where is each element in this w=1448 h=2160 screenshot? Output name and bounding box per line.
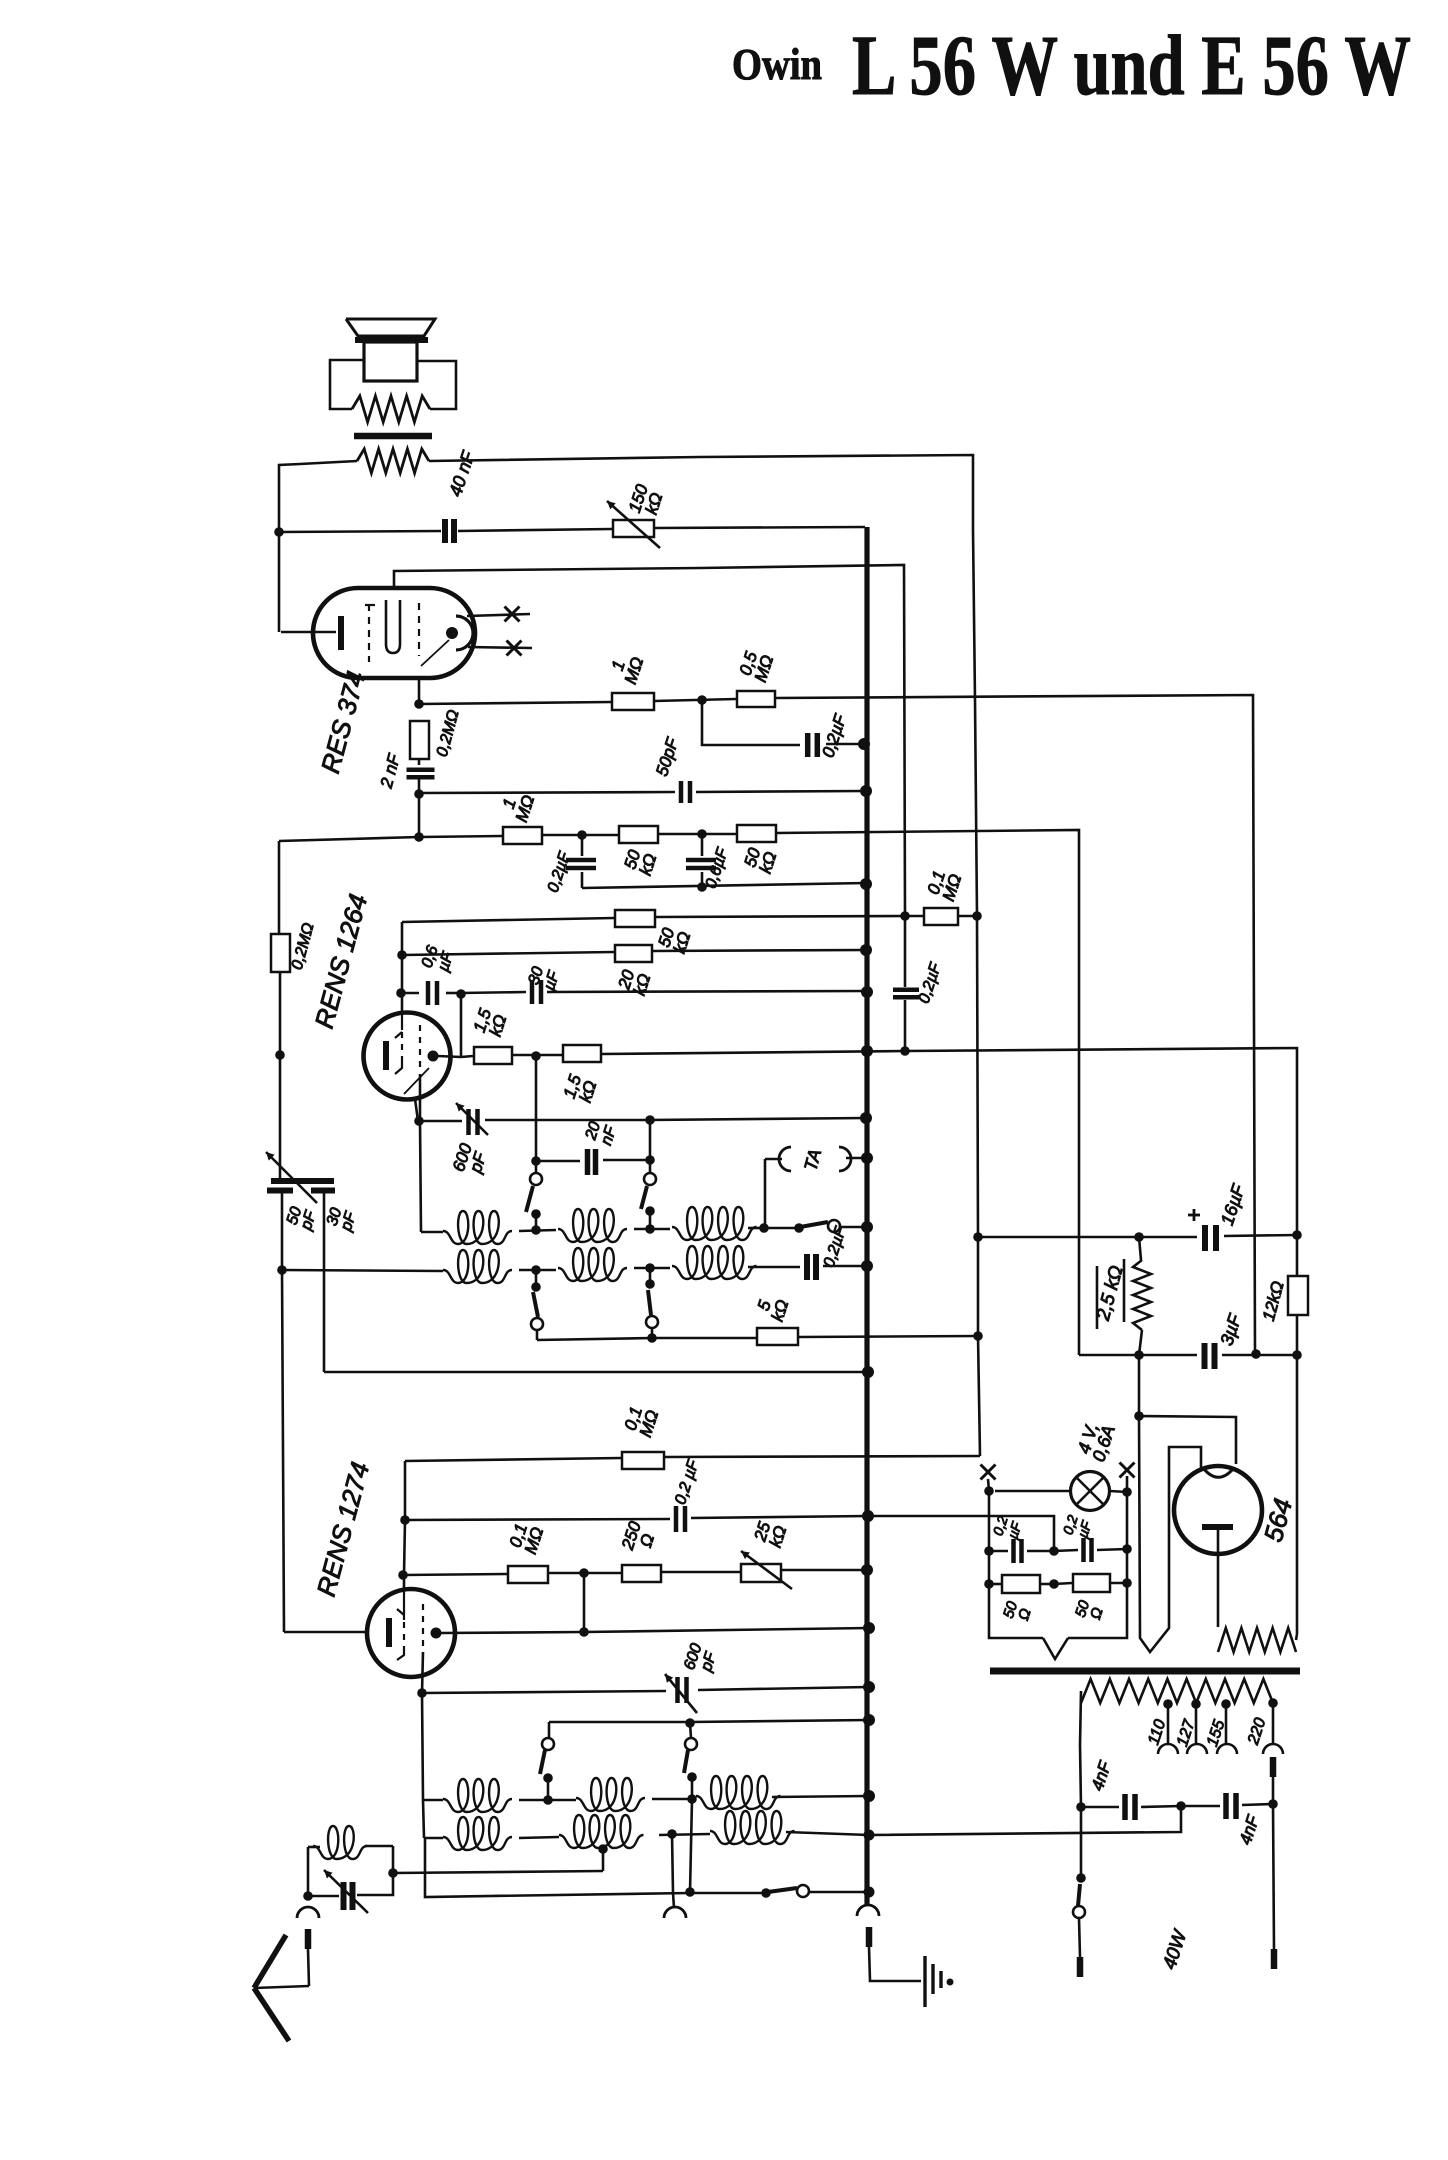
- mains primary winding zigzag: [1081, 1679, 1273, 1703]
- capacitor 0,6 µF (AVC b): [701, 834, 704, 856]
- wire balance box right: [1126, 1492, 1129, 1549]
- resistor 250 Ω: [622, 1565, 661, 1582]
- capacitor 16 µF (+): [1202, 1225, 1208, 1251]
- capacitor 4 nF (b): [1223, 1793, 1229, 1819]
- wire x584 link: [583, 1573, 586, 1632]
- svg-text:4nF: 4nF: [1236, 1812, 1264, 1847]
- wire balance mid feed: [868, 1516, 1054, 1551]
- capacitor 40 nF: [442, 519, 448, 543]
- resistor 0,1 MΩ (screen): [924, 908, 958, 925]
- trimmer capacitor (antenna): [308, 1895, 339, 1898]
- tube RENS 1264 envelope: [364, 1013, 451, 1100]
- wire grid-cap row RES374: [394, 565, 905, 916]
- node det x584: [579, 1568, 589, 1578]
- svg-text:12kΩ: 12kΩ: [1259, 1279, 1288, 1323]
- wire row3 right: [772, 1796, 869, 1797]
- inductor L2a: [443, 1250, 512, 1283]
- node 5k row x978: [973, 1331, 983, 1341]
- wire speaker left lead: [279, 461, 357, 632]
- svg-text:40W: 40W: [1159, 1926, 1192, 1972]
- TA pickup jack: [765, 1158, 782, 1161]
- node grid col y1520: [400, 1515, 410, 1525]
- capacitor 0,2 µF (AVC a): [581, 835, 584, 856]
- node bus row2: [861, 1260, 873, 1272]
- capacitor 600 pF (osc, variable): [675, 1677, 680, 1703]
- node bus grid row: [861, 986, 873, 998]
- wire RENS1274 cathode lead: [284, 1631, 367, 1634]
- svg-text:Ω: Ω: [636, 1531, 658, 1549]
- wire 20nF row: [536, 1160, 580, 1163]
- node tap 220: [1268, 1698, 1278, 1708]
- capacitor 0,2 µF (row2): [804, 1254, 810, 1280]
- balance box bottom vee: [1043, 1638, 1068, 1659]
- variable capacitor 50 pF / 30 pF: [271, 1178, 334, 1184]
- svg-text:110: 110: [1145, 1718, 1169, 1748]
- antenna jack: [297, 1907, 319, 1918]
- svg-text:L 56 W und E 56 W: L 56 W und E 56 W: [852, 17, 1411, 113]
- tube 564 top pinch: [1203, 1468, 1233, 1477]
- switch S1a: [530, 1173, 542, 1185]
- node bus cathode: [861, 1045, 873, 1057]
- wire row1 right: [748, 1227, 764, 1230]
- svg-text:0,2µF: 0,2µF: [821, 1224, 850, 1270]
- resistor 25 kΩ (variable): [741, 1564, 781, 1582]
- wire AVC row: [279, 837, 419, 841]
- node row4 tap: [598, 1844, 608, 1854]
- resistor 0,5 MΩ: [737, 691, 775, 707]
- wire grid coupling row: [401, 992, 419, 995]
- node speaker/anode junction: [274, 527, 284, 537]
- resistor 50 Ω (a): [989, 1583, 1001, 1586]
- wire right column x977: [973, 530, 980, 1456]
- svg-text:50pF: 50pF: [652, 734, 683, 778]
- node bus 600pF lower: [863, 1681, 875, 1693]
- node tap 110: [1163, 1699, 1173, 1709]
- inductor L1c: [672, 1207, 757, 1240]
- capacitor 0,2 µF (bal a): [989, 1550, 1008, 1553]
- node 2nF bottom: [414, 789, 424, 799]
- node bus 20k: [860, 944, 872, 956]
- svg-text:Owin: Owin: [732, 40, 822, 89]
- capacitor 600 pF (variable): [466, 1109, 471, 1135]
- capacitor 0,2 µF (x905): [904, 916, 907, 987]
- node grid col y1575: [398, 1570, 408, 1580]
- svg-text:0,2µF: 0,2µF: [818, 711, 850, 760]
- resistor 5 kΩ: [757, 1328, 798, 1345]
- node bus 50pF: [860, 785, 872, 797]
- wire RES374 bottom lead: [418, 676, 421, 704]
- wire left column lower: [279, 972, 282, 1055]
- node bus return: [862, 1366, 874, 1378]
- node 5k row x652: [647, 1333, 657, 1343]
- tube RENS 1274 label: [311, 1459, 376, 1599]
- resistor 1,5 kΩ (b): [563, 1045, 601, 1062]
- wire 0,2uF row RENS1274: [405, 1519, 670, 1520]
- wire row4 right: [786, 1832, 869, 1835]
- wire cathode row RENS1264: [461, 1056, 473, 1057]
- resistor 50 kΩ (screen): [615, 910, 655, 927]
- wire screen row 50k: [402, 918, 614, 922]
- speaker horn: [346, 319, 435, 336]
- node row3 x548: [543, 1795, 553, 1805]
- ground symbol: [923, 1956, 926, 2007]
- tube RENS1274 grid line 2: [422, 1604, 424, 1650]
- mains plug pin right: [1271, 1949, 1278, 1969]
- switch S-TA: [794, 1223, 804, 1233]
- wire switch feed row: [549, 1721, 690, 1724]
- node 20nF left: [531, 1156, 541, 1166]
- resistor 150 kΩ (variable): [613, 520, 654, 537]
- wire AVC return row: [582, 883, 866, 888]
- node row4 x672: [667, 1829, 677, 1839]
- wire speaker right lead to right column: [429, 455, 973, 530]
- node bus row4: [864, 1830, 875, 1841]
- svg-text:Ω: Ω: [1087, 1606, 1107, 1622]
- wire 564 cathode down: [1217, 1527, 1220, 1627]
- node tap 127: [1191, 1699, 1201, 1709]
- wire coil row3 left: [422, 1693, 423, 1800]
- node bus row1: [861, 1221, 873, 1233]
- resistor 0,1 MΩ (det): [508, 1566, 548, 1583]
- resistor 2,5 kΩ (field coil): [1133, 1260, 1151, 1330]
- svg-text:TA: TA: [800, 1147, 825, 1173]
- node 0,6uF right: [456, 989, 466, 999]
- tube RES374 anode arc: [456, 616, 473, 650]
- antenna symbol: [254, 1986, 309, 1988]
- node bal nodes: [984, 1546, 994, 1556]
- wire main HT bus (thick): [864, 527, 869, 1906]
- wire chassis row: [425, 1838, 690, 1897]
- capacitor 0,2 µF (bal b): [1054, 1550, 1078, 1551]
- svg-text:Ω: Ω: [1015, 1607, 1035, 1623]
- inductor L3a: [443, 1779, 512, 1812]
- tube RENS1264 grid line 2: [419, 1025, 421, 1072]
- node bus TA: [861, 1152, 873, 1164]
- wire left column upper: [278, 841, 281, 933]
- inductor L3c: [696, 1776, 781, 1809]
- node RENS1274 bottom: [417, 1688, 427, 1698]
- tube RES374 grid (dashed): [368, 604, 370, 662]
- inductor L2c: [672, 1246, 757, 1279]
- wire x1297 lower: [1296, 1315, 1299, 1355]
- tube RENS1274 grid line: [403, 1590, 405, 1620]
- wire 25k row: [403, 1574, 507, 1575]
- node chassis x690: [685, 1887, 695, 1897]
- tube RES374 filament: [386, 600, 400, 653]
- capacitor 0,2 µF (anode): [805, 733, 811, 757]
- wire filter bottom row: [1079, 1354, 1197, 1357]
- label 40W: [1159, 1926, 1192, 1972]
- tap 220 lead with plug: [1272, 1703, 1275, 1745]
- wire RENS1264 anode lead: [438, 1056, 461, 1057]
- wire row4 tap down: [602, 1849, 605, 1871]
- node 20k left: [397, 950, 407, 960]
- node x1139 y1416: [1134, 1411, 1144, 1421]
- wire antenna coupling row: [393, 1871, 603, 1873]
- tube RENS1264 diagonal: [404, 1068, 429, 1094]
- wire x672 to jack: [672, 1834, 673, 1893]
- wire RES374 heater lead bottom with x: [468, 647, 532, 648]
- wire row2 right: [748, 1266, 800, 1269]
- wire mains switch feed: [1080, 1807, 1083, 1878]
- wire 600pF lower row: [422, 1691, 666, 1693]
- tap 155 lead: [1225, 1704, 1228, 1745]
- wire coil row2 left: [282, 1270, 443, 1271]
- resistor 20 kΩ: [615, 945, 652, 962]
- svg-text:40 nF: 40 nF: [445, 448, 479, 499]
- svg-text:RES 374: RES 374: [315, 668, 371, 776]
- node row2 left: [277, 1265, 287, 1275]
- wire oscillator return row: [324, 1371, 868, 1374]
- wire RES374 cathode lead: [281, 631, 336, 634]
- tube RES374 anode dot: [446, 627, 458, 639]
- wire TA to row1: [764, 1159, 767, 1228]
- wire primary left end: [1080, 1691, 1081, 1807]
- node bus AVC return: [860, 878, 872, 890]
- resistor 1,5 kΩ (a): [474, 1047, 512, 1064]
- speaker frame: [330, 360, 364, 409]
- tube RENS1264 cathode plate: [383, 1041, 389, 1070]
- node tap 155: [1221, 1699, 1231, 1709]
- wire x650 to switch: [649, 1120, 652, 1160]
- svg-text:4nF: 4nF: [1088, 1758, 1116, 1793]
- wire grid vertical x419: [418, 794, 421, 837]
- speaker voice-coil zigzag: [352, 396, 430, 422]
- wire 50pF row: [419, 792, 675, 793]
- node grid leak top: [414, 699, 424, 709]
- node screen x977: [972, 911, 982, 921]
- node filter bottom x1257: [1251, 1349, 1261, 1359]
- node lamp left: [988, 1479, 989, 1491]
- node grid column y993: [396, 988, 406, 998]
- inductor L2b: [558, 1248, 627, 1281]
- wire grid column RENS1274: [404, 1461, 407, 1520]
- wire coil row1 left: [420, 1121, 421, 1232]
- switch S1b: [644, 1173, 656, 1185]
- tube RES374 cathode plate: [338, 616, 344, 650]
- wire 564 heater hairpin: [1139, 1416, 1201, 1652]
- resistor 0,2 MΩ grid leak: [410, 721, 429, 759]
- node bal mid lower: [1049, 1579, 1059, 1589]
- wire 30pF plate down: [323, 1193, 326, 1372]
- switch S3a: [548, 1722, 551, 1738]
- resistor 12 kΩ: [1288, 1276, 1308, 1315]
- node cathode x536: [531, 1051, 541, 1061]
- node 20nF right: [645, 1155, 655, 1165]
- wire 564 anode feed: [1139, 1416, 1236, 1464]
- tube RENS 1264 label: [309, 891, 374, 1031]
- node AVC a: [577, 830, 587, 840]
- capacitor 4 nF (a): [1122, 1794, 1128, 1820]
- node bus 25k: [861, 1564, 873, 1576]
- svg-text:220: 220: [1245, 1716, 1270, 1748]
- capacitor 30 µF: [530, 980, 535, 1004]
- svg-text:RENS 1274: RENS 1274: [311, 1459, 376, 1599]
- wire 600pF row: [419, 1120, 462, 1123]
- wire 0,2uF branch: [702, 700, 800, 745]
- svg-text:0,2MΩ: 0,2MΩ: [434, 708, 463, 759]
- tube RES374 grid 2 (dashed): [418, 603, 420, 656]
- svg-text:0,2 µF: 0,2 µF: [672, 1457, 703, 1507]
- node cathode x905: [900, 1046, 910, 1056]
- wire anode row: [279, 531, 441, 532]
- tap 110 lead: [1167, 1704, 1170, 1745]
- node 1M/0.5M junction: [697, 695, 707, 705]
- resistor 50 kΩ (a): [619, 826, 658, 843]
- wire grid column RENS1264: [401, 922, 404, 1014]
- resistor 1 MΩ (AVC): [503, 827, 542, 844]
- wire RENS1274 grid return row: [405, 1458, 621, 1461]
- node filter top x1139: [1134, 1232, 1144, 1242]
- node row1 TA branch: [759, 1223, 769, 1233]
- node bus switch feed: [863, 1714, 875, 1726]
- resistor 50 Ω (b): [1054, 1583, 1072, 1584]
- node bus balance: [862, 1510, 874, 1522]
- svg-text:564: 564: [1258, 1495, 1298, 1545]
- inductor L1b: [558, 1209, 627, 1242]
- mains transformer core: [990, 1668, 1300, 1675]
- wire choke to 564: [1138, 1355, 1141, 1416]
- svg-text:0,2µF: 0,2µF: [916, 960, 945, 1006]
- node switch feed x690: [685, 1718, 695, 1728]
- tube 564 envelope: [1174, 1466, 1262, 1554]
- tube RES374 internal diagonal: [421, 640, 449, 666]
- svg-text:16µF: 16µF: [1217, 1181, 1249, 1227]
- node lamp right: [1110, 1491, 1127, 1492]
- aux jack x674: [664, 1907, 686, 1918]
- inductor L1a: [443, 1211, 512, 1244]
- tube RENS1264 grid line top: [401, 1014, 403, 1030]
- node bus row3: [863, 1790, 875, 1802]
- tube RENS1264 anode dot: [428, 1051, 439, 1062]
- wire bus to mains link: [869, 1806, 1181, 1835]
- node row1 x536: [531, 1225, 541, 1235]
- tube RES 374 envelope: [313, 588, 475, 678]
- node x419 y837: [414, 832, 424, 842]
- node antenna coil right: [388, 1868, 398, 1878]
- node filter bottom x1139: [1134, 1350, 1144, 1360]
- node 600pF left: [414, 1116, 424, 1126]
- wire x690 link: [690, 1799, 692, 1892]
- svg-text:RENS 1264: RENS 1264: [309, 891, 374, 1031]
- node filter top right: [1292, 1230, 1302, 1240]
- node screen x905: [900, 911, 910, 921]
- node bal mid: [1049, 1546, 1059, 1556]
- wire 4nF row: [1081, 1806, 1119, 1809]
- wire anode HT row RES374: [419, 702, 611, 704]
- speaker magnet: [364, 342, 417, 381]
- inductor antenna coil: [308, 1846, 320, 1849]
- wire 0,6uF to cathode: [460, 994, 463, 1057]
- svg-text:2 nF: 2 nF: [376, 751, 404, 791]
- node bus det anode: [863, 1622, 875, 1634]
- capacitor 3 µF: [1202, 1343, 1208, 1369]
- resistor 0,1 MΩ (grid return): [622, 1452, 664, 1469]
- tube RENS1274 anode dot: [431, 1628, 442, 1639]
- capacitor 0,6 µF: [426, 981, 431, 1005]
- wire 20k row: [402, 952, 614, 955]
- ground jack: [857, 1905, 879, 1916]
- switch S3b: [690, 1723, 691, 1738]
- node det anode x584: [579, 1627, 589, 1637]
- svg-text:MΩ: MΩ: [621, 655, 647, 687]
- node 4nF left: [1076, 1802, 1086, 1812]
- inductor L4c: [710, 1811, 795, 1844]
- svg-text:3µF: 3µF: [1216, 1311, 1245, 1348]
- wire RENS1274 anode lead: [441, 1632, 583, 1633]
- switch S2b: [649, 1268, 652, 1284]
- tube 564 label: [1258, 1495, 1298, 1545]
- inductor L3b: [576, 1778, 645, 1811]
- wire x536 cathode to switch: [535, 1056, 538, 1161]
- node bus 0,2uF: [858, 738, 870, 750]
- node bus chassis: [864, 1887, 875, 1898]
- capacitor 20 nF: [585, 1149, 591, 1175]
- wire balance box left: [988, 1491, 991, 1551]
- x mark heater right: [1120, 1463, 1135, 1478]
- tube RENS1274 cathode plate: [386, 1618, 392, 1647]
- resistor 0,2 MΩ (left): [271, 934, 290, 972]
- resistor 50 kΩ (b): [737, 825, 776, 842]
- switch S-ground: [761, 1888, 771, 1898]
- pilot lamp 4V 0,6A: [995, 1490, 1071, 1493]
- wire 50pF plate down: [281, 1193, 284, 1270]
- node row2 x536: [531, 1265, 541, 1275]
- mains plug pin left: [1077, 1957, 1084, 1977]
- node 4nF mid: [1176, 1801, 1186, 1811]
- node AVC return caps: [697, 882, 707, 892]
- node row2 x650: [645, 1263, 655, 1273]
- output transformer winding zigzag: [357, 449, 429, 473]
- wire 5k row: [537, 1338, 652, 1340]
- svg-text:0,2MΩ: 0,2MΩ: [289, 921, 318, 972]
- node row3 x692: [687, 1794, 697, 1804]
- svg-text:0,2µF: 0,2µF: [545, 849, 574, 895]
- node RENS1264 cathode-left: [275, 1050, 285, 1060]
- svg-text:MΩ: MΩ: [512, 793, 538, 825]
- node AVC b: [697, 829, 707, 839]
- node bus 600pF row: [860, 1112, 872, 1124]
- wire coil row4 left: [423, 1800, 424, 1838]
- inductor L4a: [443, 1817, 512, 1850]
- node row1 x650: [645, 1224, 655, 1234]
- wire filter top row: [978, 1236, 1139, 1239]
- node antenna jack top: [303, 1891, 313, 1901]
- tube 564 electrode: [1202, 1524, 1233, 1530]
- x mark heater left: [981, 1465, 996, 1480]
- capacitor 0,2 µF (det): [674, 1506, 679, 1532]
- wire RES374 heater lead top with x: [467, 614, 530, 616]
- switch S-mains: [1076, 1873, 1086, 1883]
- heater winding 564 zigzag: [1218, 1628, 1296, 1652]
- tap 127 lead: [1195, 1704, 1198, 1745]
- node 4nF right: [1268, 1799, 1278, 1809]
- capacitor 2 nF: [407, 767, 435, 772]
- output transformer core: [354, 433, 432, 440]
- node filter bottom right: [1292, 1350, 1302, 1360]
- tube RENS 1274 envelope: [367, 1589, 455, 1677]
- capacitor 50 pF: [679, 781, 684, 803]
- node 600pF x650: [645, 1115, 655, 1125]
- tube RES 374 label: [315, 668, 371, 776]
- wire RENS1264 bottom lead: [415, 1099, 418, 1121]
- inductor L4b: [559, 1815, 644, 1848]
- wire mains right lead: [1273, 1804, 1274, 1949]
- resistor 1 MΩ: [612, 693, 654, 710]
- switch S2a: [535, 1270, 538, 1287]
- svg-text:kΩ: kΩ: [768, 1297, 793, 1323]
- node x978 y1237: [973, 1232, 983, 1242]
